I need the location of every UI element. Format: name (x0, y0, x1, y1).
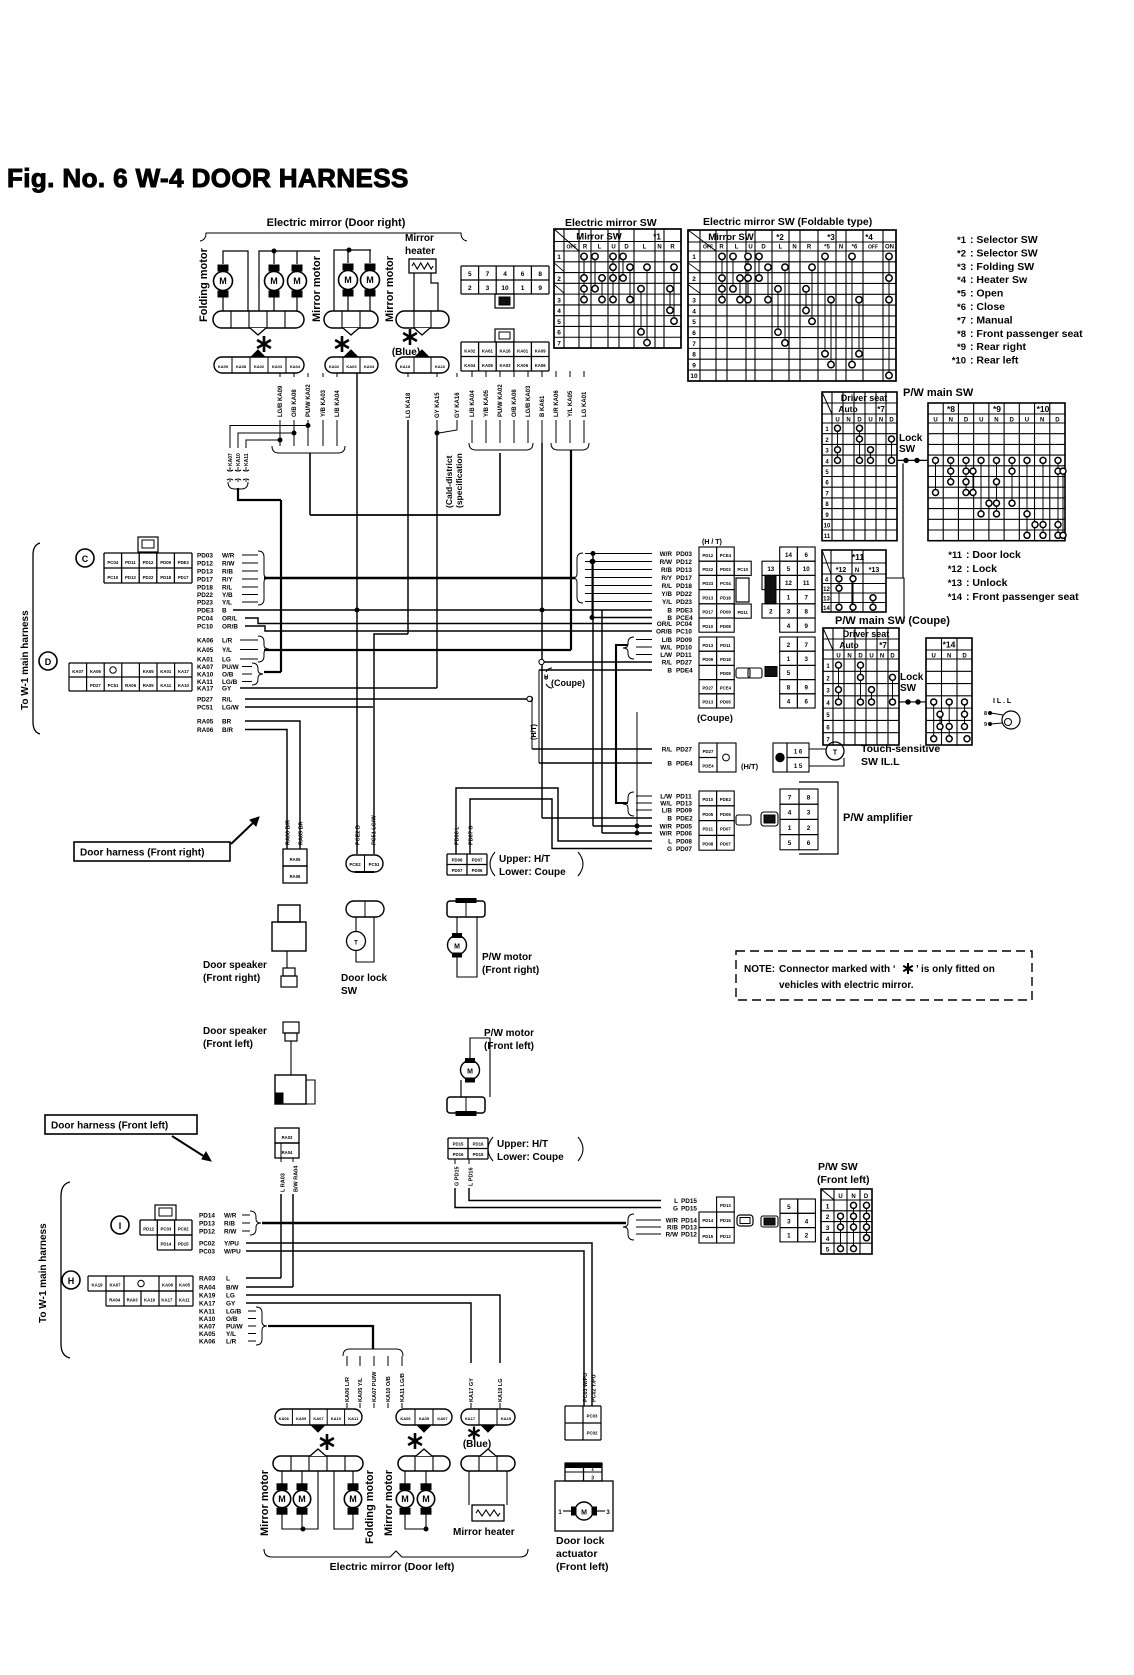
mirror heater body wires (413, 273, 415, 311)
svg-text:D: D (889, 418, 894, 424)
wire B PDE3 (233, 609, 652, 611)
svg-text:KA07: KA07 (197, 664, 214, 671)
svg-text:PD06: PD06 (452, 858, 463, 863)
wire W/R PD06 (602, 832, 652, 834)
svg-text:N: N (949, 418, 953, 424)
svg-text:3: 3 (692, 297, 696, 304)
svg-text:PDE3: PDE3 (676, 607, 693, 614)
svg-text:Upper: H/T: Upper: H/T (497, 1139, 548, 1150)
svg-text:(Cald-district: (Cald-district (444, 455, 454, 508)
svg-text:Y/L: Y/L (222, 647, 232, 654)
svg-text:PDE4: PDE4 (676, 760, 693, 767)
svg-text:L PD16: L PD16 (469, 1167, 475, 1186)
svg-text:N: N (846, 418, 850, 424)
svg-text:*6: *6 (957, 302, 966, 313)
svg-text:PD12: PD12 (143, 560, 154, 565)
svg-text:D: D (1055, 418, 1060, 424)
svg-text:RA04: RA04 (282, 1150, 293, 1155)
svg-text:Connector marked with ‘: Connector marked with ‘ (779, 964, 896, 975)
svg-text:PD18: PD18 (720, 657, 731, 662)
svg-text:: Close: : Close (970, 301, 1005, 313)
svg-text:KA10: KA10 (236, 453, 242, 466)
connector I symbol (111, 1216, 129, 1234)
svg-text:PD08 L: PD08 L (455, 826, 461, 845)
svg-text:B/W: B/W (226, 1284, 239, 1291)
connector C table (104, 553, 192, 583)
svg-text:PD15: PD15 (681, 1205, 697, 1212)
svg-text:*7: *7 (957, 315, 966, 326)
svg-text:PD22: PD22 (143, 575, 154, 580)
svg-text:PD13: PD13 (720, 1203, 731, 1208)
svg-text:G PD15: G PD15 (455, 1166, 461, 1186)
connector I table (140, 1220, 192, 1235)
svg-text:W/R: W/R (666, 1217, 679, 1224)
svg-text:D: D (864, 1194, 869, 1200)
svg-text:*14: *14 (943, 640, 956, 650)
svg-text:4: 4 (787, 699, 791, 706)
svg-text:KA02: KA02 (464, 348, 476, 353)
svg-text:L: L (643, 245, 647, 251)
svg-text:KA16: KA16 (500, 348, 512, 353)
svg-text:PD13: PD13 (197, 568, 213, 575)
door lock actuator connector (565, 1463, 602, 1481)
svg-text:2: 2 (807, 825, 811, 832)
wires KA07/KA10/KA11 up to dots (230, 426, 308, 449)
svg-text:PC03 W/PU: PC03 W/PU (583, 1373, 589, 1402)
asterisk b2 (408, 1433, 422, 1449)
collector brace KA04..KA03 (469, 443, 533, 450)
svg-text:6: 6 (807, 840, 811, 847)
svg-text:OR/B: OR/B (656, 628, 672, 635)
svg-text:Door harness (Front right): Door harness (Front right) (80, 848, 204, 859)
svg-text:KA05 Y/L: KA05 Y/L (358, 1377, 364, 1402)
svg-text:KA06: KA06 (90, 669, 102, 674)
svg-text:Door speaker: Door speaker (203, 1026, 267, 1037)
switch table Mirror SW *1 (554, 229, 681, 348)
svg-text:4: 4 (557, 308, 561, 315)
wire *11 to coupe table (886, 578, 904, 622)
svg-text:PD09: PD09 (720, 610, 731, 615)
pin number table B (780, 637, 798, 651)
touch SW lamp (826, 742, 844, 760)
svg-text:KA03: KA03 (272, 364, 283, 369)
svg-text:L/B KA04: L/B KA04 (470, 390, 476, 417)
extra cell PD11 (734, 604, 751, 618)
svg-text:KA04: KA04 (464, 363, 476, 368)
svg-text:W/R: W/R (660, 823, 673, 830)
svg-text:(Coupe): (Coupe) (697, 713, 733, 724)
underbrace Electric mirror (Door left) (264, 1549, 528, 1557)
svg-text:PD17: PD17 (676, 575, 692, 582)
svg-text:RA06 B/R: RA06 B/R (286, 820, 292, 845)
svg-text:*2: *2 (776, 233, 784, 242)
svg-text:: Rear right: : Rear right (970, 341, 1027, 353)
wire OR/B PC10 (245, 626, 652, 631)
svg-text:2: 2 (557, 276, 561, 283)
svg-text:GY: GY (226, 1300, 236, 1307)
svg-text:KA05: KA05 (482, 363, 494, 368)
connector stack A lower (699, 637, 717, 651)
svg-text:PD16: PD16 (720, 1218, 731, 1223)
svg-text:B/W RA04: B/W RA04 (294, 1165, 300, 1192)
svg-text:R: R (583, 245, 588, 251)
svg-text:L: L (598, 245, 602, 251)
svg-text:1: 1 (591, 1467, 594, 1473)
svg-text:OR/B: OR/B (222, 623, 238, 630)
oval connector bottom 1 (275, 1409, 362, 1425)
black tab below (495, 294, 514, 308)
svg-text:4: 4 (788, 810, 792, 817)
svg-text:PD27: PD27 (676, 746, 692, 753)
contact circles and links table2 (721, 256, 723, 299)
svg-text:KA07: KA07 (72, 669, 84, 674)
svg-text:N: N (847, 654, 851, 660)
svg-text:PD23: PD23 (197, 599, 213, 606)
svg-text:3: 3 (804, 656, 808, 663)
svg-text:To W-1 main harness: To W-1 main harness (20, 610, 31, 710)
svg-text:OR/L: OR/L (222, 615, 237, 622)
svg-text:D: D (624, 245, 629, 251)
svg-text:Y/L: Y/L (222, 599, 232, 606)
wire lock sw link (897, 459, 928, 461)
svg-text:PD12: PD12 (199, 1228, 215, 1235)
svg-text:*8: *8 (957, 329, 966, 340)
svg-text:*5: *5 (957, 289, 967, 300)
svg-text:1: 1 (557, 254, 561, 261)
driver seat table (upper) (822, 392, 897, 541)
svg-text:PD07: PD07 (720, 841, 731, 846)
svg-text:PD18: PD18 (676, 583, 692, 590)
svg-text:PCE4: PCE4 (720, 553, 732, 558)
svg-text:PC02: PC02 (178, 1227, 189, 1232)
svg-text:B/R: B/R (222, 727, 233, 734)
svg-text:PCE2 B: PCE2 B (356, 825, 362, 845)
P/W motor front left symbol (461, 1061, 480, 1080)
thick wire KA07 bundle (264, 671, 281, 673)
connector stack A upper (699, 547, 717, 561)
svg-text:Folding motor: Folding motor (364, 1469, 376, 1544)
svg-text:PD13: PD13 (676, 800, 692, 807)
svg-text:1 5: 1 5 (794, 764, 803, 770)
svg-text:8: 8 (984, 711, 987, 717)
svg-text:Folding motor: Folding motor (198, 247, 210, 322)
thick wire KA06 bundle to vertical (264, 649, 571, 651)
switch table Mirror SW *2 *3 *4 (688, 230, 896, 381)
asterisk b3 (468, 1427, 479, 1440)
asterisk 2 (335, 336, 349, 352)
svg-text:D: D (45, 657, 52, 667)
contacts P/W SW front left (840, 1216, 842, 1248)
svg-text:PD15: PD15 (681, 1198, 697, 1205)
svg-text:L/R KA06: L/R KA06 (554, 390, 560, 417)
svg-text:OFF: OFF (567, 245, 577, 251)
svg-text:P/W main SW (Coupe): P/W main SW (Coupe) (835, 615, 950, 627)
svg-text:KA17: KA17 (199, 1300, 216, 1307)
svg-text:PD09: PD09 (160, 560, 171, 565)
svg-text:PD09: PD09 (676, 807, 692, 814)
svg-text:PD07: PD07 (676, 846, 692, 853)
riser W/R x593 (592, 556, 594, 826)
svg-text:L/B: L/B (662, 807, 673, 814)
door lock SW symbol (346, 901, 384, 917)
rounded tab (737, 1215, 753, 1226)
svg-text:actuator: actuator (556, 1548, 597, 1560)
svg-text:G: G (673, 1205, 678, 1212)
svg-text:*10: *10 (1037, 404, 1050, 414)
svg-text:RA04: RA04 (199, 1284, 216, 1291)
wire LG KA18 down (407, 420, 409, 634)
svg-text:LG: LG (222, 656, 231, 663)
svg-text:PC51 LG/W: PC51 LG/W (372, 815, 378, 845)
svg-text:B KA61: B KA61 (540, 395, 546, 417)
svg-text:KA06: KA06 (199, 1338, 216, 1345)
top bracket (200, 233, 467, 241)
svg-text:(Front left): (Front left) (556, 1561, 609, 1573)
svg-text:7: 7 (692, 341, 696, 348)
svg-text:KA09: KA09 (218, 364, 229, 369)
svg-text:M: M (581, 1510, 587, 1517)
svg-text:B: B (667, 607, 672, 614)
svg-text:KA05: KA05 (197, 647, 214, 654)
svg-text:PC51: PC51 (108, 683, 119, 688)
svg-text:R/Y: R/Y (661, 575, 672, 582)
svg-text:Y/B: Y/B (661, 591, 672, 598)
svg-text:N: N (855, 568, 859, 574)
svg-text:PD08: PD08 (702, 841, 713, 846)
svg-text:KA10: KA10 (197, 671, 214, 678)
oval connector KA02-KA04 (325, 357, 378, 373)
svg-text:PD10: PD10 (676, 644, 692, 651)
thick window bundle riser x616 (616, 645, 628, 803)
connector H table (88, 1276, 193, 1291)
svg-text:PD15: PD15 (702, 1234, 713, 1239)
svg-text:U: U (836, 654, 840, 660)
svg-text:Door lock: Door lock (556, 1535, 605, 1547)
svg-text:RA03: RA03 (282, 1135, 293, 1140)
connector H symbol (62, 1271, 80, 1289)
wire mirror motor pair1 rail (259, 251, 320, 311)
svg-text:: Lock: : Lock (966, 563, 997, 575)
svg-text:KA07: KA07 (228, 453, 234, 466)
wire drop to bus (309, 453, 311, 515)
svg-text:*4: *4 (957, 275, 967, 286)
svg-text:O/B: O/B (222, 671, 234, 678)
svg-text:PCE2: PCE2 (349, 862, 361, 867)
svg-text:KA10: KA10 (199, 1316, 216, 1323)
svg-text:N: N (1040, 418, 1044, 424)
svg-text:Mirror motor: Mirror motor (259, 1469, 271, 1536)
wire lock sw down (902, 463, 904, 578)
svg-text:M: M (467, 1069, 473, 1076)
svg-text:*5: *5 (824, 245, 830, 251)
svg-text:R/B: R/B (222, 568, 233, 575)
svg-text:Y/L: Y/L (662, 599, 672, 606)
thick bus PD bundle (262, 1222, 626, 1225)
svg-text:8: 8 (692, 352, 696, 359)
P/W amplifier outline (799, 782, 838, 854)
svg-text:R/W: R/W (666, 1231, 679, 1238)
svg-text:PD13: PD13 (199, 1220, 215, 1227)
svg-text:14: 14 (785, 552, 792, 559)
svg-text:KA06: KA06 (197, 637, 214, 644)
svg-text:LG/W: LG/W (222, 705, 240, 712)
svg-text:13: 13 (767, 566, 774, 573)
svg-text:M: M (298, 1494, 306, 1504)
svg-text:PD12: PD12 (197, 560, 213, 567)
svg-text:5: 5 (468, 271, 472, 278)
svg-text:1: 1 (692, 254, 696, 261)
svg-text:KA03: KA03 (346, 364, 357, 369)
svg-text:SW: SW (899, 444, 916, 455)
svg-text:L/W: L/W (660, 793, 673, 800)
svg-text:KA01: KA01 (197, 656, 214, 663)
wire B PDE4 lower (539, 762, 652, 764)
svg-text:U: U (979, 418, 983, 424)
svg-text:B: B (667, 667, 672, 674)
wire folding motor loop (223, 251, 248, 311)
svg-text:Y/PU: Y/PU (224, 1241, 239, 1248)
wire RA04 (246, 1286, 293, 1288)
wire B PDE4 (mid right) (539, 669, 652, 671)
folding motor M (214, 265, 233, 297)
thick jog to inline connector (238, 488, 281, 500)
connector bar 2 (324, 311, 378, 328)
svg-text:PD16: PD16 (453, 1152, 464, 1157)
svg-text:C: C (82, 554, 89, 564)
svg-text:PD05: PD05 (676, 823, 692, 830)
svg-text:*11: *11 (852, 552, 865, 562)
svg-text:R: R (670, 245, 675, 251)
svg-text:3: 3 (787, 1218, 791, 1225)
oval connector KA09-KA04 (214, 357, 304, 373)
svg-text:OFF: OFF (868, 245, 878, 251)
riser x637 (636, 712, 638, 833)
wire GY merged down (436, 434, 438, 684)
svg-text:PD10: PD10 (702, 624, 713, 629)
svg-text:GY KA15: GY KA15 (435, 392, 441, 418)
wire W/R PD05 (593, 825, 652, 827)
svg-text:SW: SW (900, 683, 917, 694)
svg-text:4: 4 (787, 623, 791, 630)
rounded tab lower stack (736, 668, 750, 678)
oval connector bottom 3 (Blue) (461, 1409, 515, 1425)
svg-text:PD12: PD12 (681, 1231, 697, 1238)
wire R/L PD27 lower (532, 748, 652, 750)
connector PD06/PD07 (447, 854, 487, 875)
svg-text:KA07 PU/W: KA07 PU/W (372, 1371, 378, 1402)
wire B PCE4 (592, 617, 652, 619)
svg-text:KA02: KA02 (254, 364, 265, 369)
svg-text:M: M (349, 1494, 357, 1504)
svg-text:RA03: RA03 (199, 1275, 216, 1282)
svg-text:(Coupe): (Coupe) (551, 678, 585, 688)
svg-text:NOTE:: NOTE: (744, 964, 775, 975)
svg-text:W/R: W/R (660, 830, 673, 837)
svg-text:L RA03: L RA03 (281, 1173, 287, 1192)
svg-text:PDE2: PDE2 (676, 815, 693, 822)
svg-text:R/B: R/B (661, 567, 672, 574)
svg-text:(specification: (specification (454, 453, 464, 508)
svg-text:I L . L: I L . L (993, 698, 1012, 705)
svg-text:Door speaker: Door speaker (203, 960, 267, 971)
svg-text:*3: *3 (827, 233, 835, 242)
svg-text:PD08: PD08 (676, 838, 692, 845)
lower window bundle brace (623, 792, 634, 816)
wires bottom group1 (281, 1471, 283, 1484)
svg-text:PD22: PD22 (702, 567, 713, 572)
svg-text:KA10: KA10 (178, 683, 190, 688)
inline connector KA07/KA10/KA11 (228, 482, 248, 489)
svg-text:: Manual: : Manual (970, 314, 1013, 326)
svg-text:L/B: L/B (662, 637, 673, 644)
svg-text:N: N (880, 654, 884, 660)
svg-text:KA61: KA61 (482, 348, 494, 353)
upper window bundle brace (623, 637, 634, 659)
svg-text:PD07: PD07 (452, 868, 463, 873)
svg-text:KA01: KA01 (517, 348, 529, 353)
pin number table A (780, 547, 798, 561)
svg-text:PD17: PD17 (702, 610, 713, 615)
svg-text:PD18: PD18 (197, 584, 213, 591)
P/W main SW table *8 *9 *10 (928, 403, 1065, 541)
svg-text:PDE2: PDE2 (720, 797, 732, 802)
svg-text:PD10: PD10 (702, 797, 713, 802)
svg-text:5: 5 (692, 319, 696, 326)
svg-text:*12: *12 (836, 567, 847, 574)
svg-text:: Unlock: : Unlock (966, 577, 1008, 589)
connector C symbol (76, 549, 94, 567)
svg-text:PD27: PD27 (197, 697, 213, 704)
svg-text:B: B (667, 815, 672, 822)
svg-text:3: 3 (557, 297, 561, 304)
svg-text:Y/L: Y/L (226, 1331, 236, 1338)
box Door harness (Front left) (45, 1115, 197, 1134)
svg-text:PD07: PD07 (720, 827, 731, 832)
wire GY KA15 down to junction (436, 420, 438, 434)
svg-text:10: 10 (690, 373, 698, 380)
svg-text:KA08: KA08 (236, 364, 247, 369)
svg-text:PD11: PD11 (737, 610, 748, 615)
svg-text:LG: LG (226, 1292, 235, 1299)
svg-text:KA09: KA09 (535, 348, 547, 353)
svg-text:PD17: PD17 (178, 575, 189, 580)
svg-text:1: 1 (787, 594, 791, 601)
svg-text:R: R (719, 245, 724, 251)
svg-text:U: U (748, 245, 752, 251)
svg-text:D: D (1010, 418, 1015, 424)
svg-text:PD27: PD27 (703, 749, 714, 754)
wire drop thick from KA06 group (570, 450, 572, 577)
svg-text:5: 5 (787, 1204, 791, 1211)
svg-text:R/W: R/W (224, 1228, 237, 1235)
svg-text:D: D (857, 418, 862, 424)
door lock actuator body (555, 1481, 613, 1531)
svg-text:2: 2 (769, 609, 773, 616)
svg-text:PD17: PD17 (197, 576, 213, 583)
svg-text:KA10: KA10 (331, 1416, 342, 1421)
svg-text:KA06 L/R: KA06 L/R (345, 1377, 351, 1402)
svg-text:P/W SW: P/W SW (818, 1161, 858, 1173)
svg-text:Y/L KA05: Y/L KA05 (568, 390, 574, 417)
bracket To W-1 main harness (lower) (61, 1182, 70, 1358)
svg-text:R/W: R/W (660, 559, 673, 566)
svg-text:1 6: 1 6 (794, 750, 803, 756)
svg-text:5: 5 (557, 319, 561, 326)
svg-text:RA06: RA06 (125, 683, 137, 688)
svg-text:KA05: KA05 (296, 1416, 307, 1421)
svg-text:PD23: PD23 (702, 581, 713, 586)
svg-text:PD22: PD22 (676, 591, 692, 598)
